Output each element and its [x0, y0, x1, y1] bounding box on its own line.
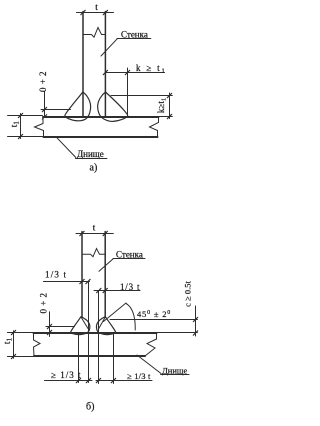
dimension >=1/3t left below plate (b): slash left [76, 378, 80, 382]
dimension t1 left (a): slash lower [18, 134, 22, 138]
label Днище (a): underline [76, 158, 108, 160]
dimension 1/3t left (b): slash on wall face [80, 279, 84, 283]
svg-text:б): б) [86, 402, 94, 413]
dimension t1 left (b): lower extension line [7, 356, 40, 358]
dimension k>=t1 horizontal (a): slash on wall [103, 70, 107, 74]
dimension k>=t1 vertical right (a): dimension line [169, 93, 171, 119]
root edge left (b): extension line from 1/3t dim down through plate [88, 282, 90, 383]
dimension t (b): slash left [80, 231, 84, 235]
dimension c>=0.5t right (b): upper extension line [110, 319, 197, 321]
weld right (b): outline [96, 317, 115, 335]
wall left line (a) [82, 12, 84, 117]
svg-text:t1: t1 [3, 337, 14, 344]
dimension 1/3t right (b): slash on wall face [103, 288, 107, 292]
svg-text:t: t [95, 2, 98, 12]
bottom plate (b): top edge [34, 332, 157, 334]
bottom plate (b): bottom edge [34, 355, 145, 357]
dimension k>=t1 vertical right (a): slash lower [167, 114, 171, 118]
bottom plate (b): top edge thin extension to c dimension [157, 332, 198, 334]
dimension k>=t1 horizontal (a): dimension line [105, 72, 164, 74]
bottom plate (b): right break line [145, 333, 157, 356]
weld left (b): outline [71, 317, 90, 335]
wall break symbol (a) [83, 28, 105, 38]
angle 45 deg (b): arc [126, 304, 135, 331]
dimension >=1/3t right below plate (b): slash left [96, 378, 100, 382]
dimension t1 left (b): dimension line [13, 331, 15, 358]
dimension t1 left (b): slash upper [11, 330, 15, 334]
dimension 0+2 (b): dimension line [49, 312, 51, 337]
svg-text:1/3 t: 1/3 t [120, 282, 140, 292]
label Днище (b): leader [137, 355, 161, 374]
label Днище (b): underline [161, 374, 189, 376]
dimension 0+2 (b): slash upper [47, 324, 51, 328]
dimension 1/3t right (b): slash on root edge [97, 288, 101, 292]
dimension k>=t1 vertical right (a): lower extension line [159, 116, 172, 118]
dimension t (b): dimension line [76, 233, 113, 235]
dimension c>=0.5t right (b): slash lower [193, 331, 197, 335]
svg-text:≥ 1/3 t: ≥ 1/3 t [127, 371, 151, 381]
weld left (b): chamfer line [81, 317, 88, 329]
dimension t1 left (a): slash upper [18, 113, 22, 117]
dimension 0+2 (a): slash upper [42, 107, 46, 111]
dimension t (a): dimension line [77, 12, 114, 14]
dimension t (a): slash right [103, 10, 107, 14]
wall break symbol (b) [82, 249, 105, 257]
dimension 0+2 (b): extension line at wall bottom [46, 326, 75, 328]
dimension t1 left (a): lower extension line [8, 136, 43, 138]
svg-text:0 + 2: 0 + 2 [38, 71, 48, 92]
angle 45 deg (b): leader line [104, 303, 127, 322]
svg-text:0 + 2: 0 + 2 [38, 292, 48, 313]
bottom plate (a): left break line [35, 117, 44, 137]
bottom plate (a): bottom edge [44, 136, 158, 138]
fusion line left (b): vertical through plate [78, 333, 80, 383]
dimension 1/3t right (b): dimension line [94, 290, 140, 292]
weld fillet left (a) [65, 92, 91, 121]
svg-text:450 ± 20: 450 ± 20 [137, 309, 171, 319]
dimension >=1/3t left below plate (b): slash right [86, 378, 90, 382]
dimension k>=t1 vertical right (a): upper extension line [111, 95, 172, 97]
dimension t1 left (a): upper extension line [8, 115, 43, 117]
dimension 0+2 (a): extension line at wall bottom [41, 109, 71, 111]
svg-text:t1: t1 [10, 121, 21, 128]
dimension >=1/3t right below plate (b): dimension line [96, 380, 152, 382]
svg-text:k ≥ t1: k ≥ t1 [136, 63, 167, 75]
dimension t1 left (b): upper extension line [7, 332, 40, 334]
label Стенка (b): underline [113, 258, 145, 260]
dimension t (b): slash right [103, 231, 107, 235]
svg-text:t: t [93, 223, 96, 233]
fusion line right (b): vertical from weld toe through plate [113, 333, 115, 384]
dimension t1 left (a): dimension line [20, 114, 22, 139]
dimension k>=t1 horizontal (a): extension line at weld toe [127, 68, 129, 116]
weld fillet right (a) [98, 92, 128, 121]
wall left line (b) [81, 232, 83, 318]
dimension k>=t1 horizontal (a): slash on toe [125, 70, 129, 74]
svg-text:Днище: Днище [77, 149, 104, 159]
dimension c>=0.5t right (b): slash upper [193, 317, 197, 321]
label Стенка (a): underline [117, 38, 151, 40]
svg-text:k≥t1: k≥t1 [156, 98, 168, 113]
svg-text:1/3 t: 1/3 t [45, 270, 67, 280]
dimension k>=t1 vertical right (a): slash upper [167, 93, 171, 97]
dimension 0+2 (a): slash lower [42, 115, 46, 119]
dimension 1/3t left (b): slash on root edge [86, 279, 90, 283]
bottom plate (a): right break line [150, 117, 159, 137]
svg-text:c ≥ 0.5t: c ≥ 0.5t [183, 281, 193, 307]
dimension 0+2 (b): slash lower [47, 330, 51, 334]
label Днище (a): leader [57, 137, 76, 157]
dimension t1 left (b): slash lower [11, 354, 15, 358]
wall right line (b) [104, 232, 106, 318]
dimension c>=0.5t right (b): dimension line [195, 306, 197, 336]
wall right line (a) [104, 12, 106, 117]
bottom plate (a): top edge [43, 116, 159, 118]
dimension t (a): slash left [81, 10, 85, 14]
svg-text:≥ 1/3 t: ≥ 1/3 t [51, 370, 81, 380]
weld right (b): chamfer line [99, 317, 106, 329]
label Стенка (a): leader [101, 39, 117, 56]
dimension >=1/3t left below plate (b): dimension line [45, 380, 93, 382]
dimension >=1/3t right below plate (b): slash right [111, 378, 115, 382]
svg-text:а): а) [90, 163, 98, 174]
bottom plate (b): left break line [34, 333, 41, 356]
dimension 1/3t left (b): dimension line [43, 281, 89, 283]
label Стенка (b): leader [99, 259, 113, 272]
root edge right (b): extension line from 1/3t dim down through plate [98, 291, 100, 384]
dimension 0+2 (a): dimension line [44, 92, 46, 118]
